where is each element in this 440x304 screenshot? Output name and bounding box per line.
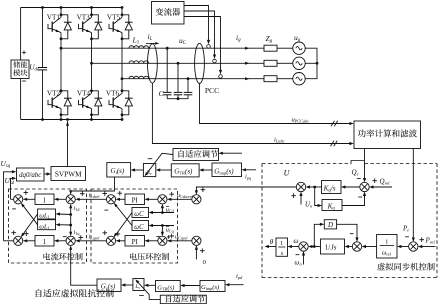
svg-text:uCq: uCq [166,227,175,234]
wire converter ctrl 3 [184,17,221,73]
svg-text:1: 1 [280,240,283,247]
svg-text:i1d: i1d [74,205,81,212]
wire converter ctrl 2 [184,11,215,58]
wire q1 out [4,240,14,242]
svg-text:VT1: VT1 [47,13,61,21]
label plus vd1 [103,191,108,196]
svg-text:uC: uC [179,36,187,46]
bus slash uPCCabc [331,121,335,126]
svg-text:1: 1 [385,238,388,245]
dq0/abc box [17,168,45,181]
Rv adjust arrow [146,153,173,174]
label voltage loop [130,253,137,260]
wire bridge leg 3 [121,8,123,18]
stub Pref [420,246,435,248]
arrow grid current phase C [245,77,249,80]
omegaC box d [132,208,149,218]
arrow grid current phase A [245,47,249,50]
wire Usq feed [4,172,15,241]
wire Gimp to GTR [182,285,200,287]
svg-text:Gimp(s): Gimp(s) [201,284,219,291]
svg-text:ipq: ipq [245,174,252,181]
label adaptive virtual impedance control [36,289,42,297]
svg-text:iLabc: iLabc [274,136,285,143]
label minus uCq [156,236,159,238]
wire Lv to Gv [123,284,133,286]
summer voltage d1 [106,195,115,204]
svg-text:L1: L1 [132,36,140,46]
label plus q2 [79,235,84,240]
svg-text:PCC: PCC [205,86,219,95]
wire Gv output feed [71,247,97,286]
wire d1 out [11,198,14,200]
transistor VT4 [79,100,83,105]
svg-text:VT6: VT6 [106,89,120,97]
summer D [352,242,361,251]
wire 1Js to omegasum [310,246,320,248]
wire d2 to PI [147,198,158,200]
label minus Qe [357,178,361,180]
wire phase C line [122,78,264,80]
capacitor Udc [42,8,44,68]
wire i1d feedback [70,205,72,214]
wire Psum to 1omega [399,246,409,248]
svg-text:iLqref: iLqref [89,233,101,240]
summer voltage d2 [158,195,167,204]
omegaL1 box d [38,209,56,219]
svg-text:SVPWM: SVPWM [55,169,82,178]
stub Un [300,193,302,205]
filter capacitors C [166,48,168,92]
label plus Qref [372,178,377,183]
svg-text:ipd: ipd [236,273,243,280]
wire SVPWM gate drive [67,121,69,166]
inductor L1 phase A [129,46,149,48]
wire dref to d2 [169,198,192,200]
stub ipd input [227,284,243,286]
wire grid neutral bus [305,48,317,78]
PI box d [125,194,145,205]
svg-text:ωC: ωC [134,224,144,231]
wire q2 to 1box q [56,240,66,242]
Gimp(s) box bottom [200,281,225,292]
svg-text:VT5: VT5 [107,13,121,21]
svg-text:ig: ig [236,33,241,43]
wire Pe [412,149,414,241]
transistor VT5 [109,24,113,29]
svg-text:0: 0 [203,259,206,266]
wire Qsum to Kqs [343,186,360,188]
wire phase A line [61,47,264,49]
summer P [409,242,418,251]
label plus [22,51,26,55]
label plus q2r [169,234,174,239]
SVPWM box [51,167,86,181]
svg-text:Qref: Qref [380,177,391,185]
1/Js box [321,239,345,254]
label minus omega_n [296,254,300,256]
svg-text:C: C [158,89,164,98]
wire U into dref [196,187,296,194]
VSG border hop at Qe [351,161,364,165]
wire Usd feed [11,178,15,199]
sensor ellipse uC [195,43,205,83]
label minus Pe [405,236,409,238]
GTR(s) box top [171,164,199,177]
grid source phase B [293,57,305,69]
svg-text:iLdref: iLdref [89,192,101,199]
stub ipq input [244,169,256,171]
wire Gi output [71,177,115,194]
label plus d1 [24,190,29,195]
wire omegasum to 1s [290,246,299,248]
omegaC box q [132,221,149,231]
summer current d1 [14,195,23,204]
wire Kqs to Usum [308,186,322,188]
stub Qref [371,186,392,188]
VSG dashed box [262,163,351,165]
svg-text:PI: PI [132,196,139,204]
wire Ku to Qsum [342,193,365,206]
svg-text:i1q: i1q [74,229,81,236]
label plus vq1 left [103,231,108,236]
power calc and filter box [354,121,421,149]
svg-text:uCd: uCd [166,207,175,214]
stub zero input [195,247,197,260]
wire i1q feedback [70,225,72,235]
wire 1box to q1 [25,240,35,242]
arrow dq0abc to SVPWM [44,173,49,175]
summer current q1 [14,236,23,245]
svg-text:GTR(s): GTR(s) [157,284,174,291]
transistor VT6 [109,100,113,105]
wire qref to q2 [169,240,192,242]
label plus q1 left [11,230,16,235]
label minus [22,80,26,82]
label minus i1q [63,236,67,238]
grid source phase C [293,73,305,85]
wire iLqref [78,240,107,242]
diode D2 [61,91,68,99]
wire uPCCabc measurement [200,84,352,124]
Gi(s) box [107,163,131,177]
1/omega_ref box [377,235,397,259]
summer voltage qref [192,236,201,245]
Gimp(s) box top [212,163,242,177]
Kq/s box [322,181,342,194]
svg-text:VT2: VT2 [47,89,61,97]
node breaker contact A [207,45,211,49]
omegaL1 box q [38,220,56,230]
wire 1box to d1 [25,198,35,200]
node phase tap C [121,77,124,80]
adaptive regulator box bottom [160,295,206,304]
wire U to Ku [315,187,320,206]
gain 1 box q [35,236,54,247]
wire Gimp to GTR [201,169,212,171]
label minus D [350,233,354,235]
svg-text:ωn: ωn [295,260,303,267]
label minus Lv [139,295,144,297]
wire bridge leg 2 [91,8,93,18]
svg-text:iL: iL [148,32,153,42]
label plus uCq [167,235,170,238]
node i1d tap [69,213,72,216]
svg-text:U: U [284,169,291,178]
summer current q2 [66,236,75,245]
svg-text:Pe: Pe [402,225,409,233]
node U tap [313,186,316,189]
arrow iL [146,42,157,44]
inductor L1 phase B [129,61,149,63]
svg-text:D: D [327,221,333,229]
svg-text:Qe: Qe [352,169,359,177]
label plus Usum [291,193,296,198]
impedance Zg phase B [264,60,277,66]
converter box [152,2,185,25]
wire PI to vd1 [118,198,125,200]
svg-text:1: 1 [43,196,47,204]
stub adaptive regulator input [221,152,242,154]
adjustable Rv box [143,164,155,177]
cross coupling omegaC d to q1 [114,233,118,237]
wire i1q to omegaL1 [58,224,71,226]
node breaker contact B [213,59,217,63]
summer U [296,182,305,191]
bus slash iLabc [331,141,335,146]
svg-text:uPCCabc: uPCCabc [292,116,310,123]
wire GTR to Lv [146,284,155,286]
svg-text:ωL1: ωL1 [39,223,50,230]
label plus qref [200,248,205,253]
node phase tap B [90,62,93,65]
wire omega to D [314,224,322,246]
wire GTR to Rv [158,169,171,171]
D box [324,220,336,229]
svg-text:Lv: Lv [134,284,140,290]
wire i1 link [70,215,72,226]
wire uCd up [161,205,163,212]
wire DC left bus [20,8,22,61]
summer omega [299,242,308,251]
svg-text:PI: PI [132,238,139,246]
svg-text:dq0/abc: dq0/abc [19,172,41,179]
wire DC- bottom rail [21,119,122,121]
impedance Zg phase C [264,76,277,82]
GTR(s) box bottom [156,281,181,292]
stub uCq [151,225,174,227]
diode D6 [122,91,129,99]
label plus iLdref [80,191,85,196]
energy storage module box [11,60,29,79]
wire i1d to omegaL1 [58,213,71,216]
label plus q1 right [24,231,29,236]
svg-text:Pref: Pref [425,236,436,244]
adaptive regulator box top [173,149,219,161]
summer voltage q2 [158,236,167,245]
svg-text:Usq: Usq [1,159,11,169]
wire PI to vq1 [118,240,125,242]
stub omega_n [303,252,305,264]
integrator 1/s box [276,238,288,256]
summer current d2 [66,195,75,204]
transistor VT1 [48,24,52,29]
svg-text:Un: Un [305,201,313,208]
node phase tap A [60,47,63,50]
wire 1omega to dsum [364,246,377,248]
label plus dref [201,187,206,192]
wire D to dsum [337,224,357,240]
current loop dashed box [9,189,87,263]
svg-text:1/Js: 1/Js [325,243,337,252]
Lv adjust arrow [137,281,161,300]
wire Qe [364,149,366,182]
svg-text:Gi(s): Gi(s) [111,167,125,175]
gain 1 box d [35,194,54,205]
wire dsum to 1Js [347,246,353,248]
svg-text:uCabcref: uCabcref [177,192,193,199]
node omega tap [313,245,316,248]
PI box q [125,236,145,247]
arrow theta out [267,246,276,248]
wire q2 to PI [147,240,158,242]
label current loop [43,253,50,260]
label minus vd1 [104,209,108,211]
svg-text:Udc: Udc [29,63,40,73]
cross coupling omegaL1 q to d1 [21,203,25,207]
wire phase B line [92,62,265,64]
cross coupling omegaC q to d1 [114,203,118,207]
summer Q [360,182,369,191]
svg-text:ωref: ωref [382,250,392,257]
node breaker contact C [219,75,223,79]
transistor VT3 [79,24,83,29]
wire iLdref [78,198,107,200]
transistor VT2 [48,100,52,105]
svg-text:VT4: VT4 [77,89,91,97]
stub uCd [151,212,174,214]
svg-text:θ: θ [270,237,274,246]
adjustable Lv box [133,279,144,291]
label VSG control [377,263,385,271]
wire Rv to Gi [133,169,144,171]
grid source phase A [293,42,305,54]
svg-text:ω: ω [293,236,298,245]
label plus d2 [169,192,174,197]
diode D1 [61,15,68,23]
diode D5 [122,15,129,23]
wire converter ctrl 1 [184,6,209,43]
impedance Zg phase A [264,45,277,51]
svg-text:VT3: VT3 [77,13,91,21]
label minus Ku [358,196,362,198]
svg-text:ωL1: ωL1 [39,213,50,220]
diode D4 [92,91,99,99]
wire DC+ top rail [21,7,122,9]
inductor L1 phase C [129,76,149,78]
svg-text:1: 1 [43,238,47,246]
sensor ellipse iL [148,44,158,83]
arrow grid current phase B [245,62,249,65]
cross coupling omegaL1 d to q1 [21,233,25,237]
summer voltage dref [192,195,201,204]
label plus Pref [419,237,424,242]
label minus Rv [148,158,153,160]
node i1q tap [69,224,72,227]
label plus vd1pi [118,191,123,196]
wire DC left bus lower [20,79,22,120]
voltage loop dashed box [91,189,178,263]
wire d2 to 1box [56,198,66,200]
diode D3 [92,15,99,23]
Gv(s) box [97,279,121,292]
label plus vq1 right [116,232,121,237]
wire iLabc measurement [152,83,351,143]
label minus d1 [12,208,16,210]
svg-text:ug: ug [294,33,301,43]
summer voltage q1 [106,236,115,245]
wire uCq down [161,226,163,236]
wire bridge leg 1 [60,8,62,18]
svg-text:Zg: Zg [266,34,273,44]
Ku box [322,200,342,211]
svg-text:uCqref: uCqref [175,234,188,241]
svg-text:ωC: ωC [134,211,144,218]
